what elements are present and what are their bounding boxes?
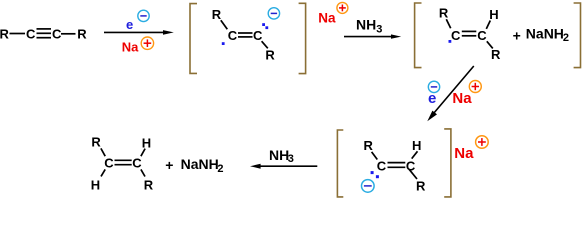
- wire bond C-H: [412, 151, 418, 158]
- svg-text:Na: Na: [454, 145, 474, 162]
- svg-text:NH: NH: [356, 17, 376, 33]
- svg-text:H: H: [142, 135, 151, 150]
- svg-text:Na: Na: [452, 90, 472, 107]
- triple bond: [37, 28, 52, 30]
- wire bond R-C: [221, 20, 228, 29]
- wire bond R-C: [10, 33, 26, 35]
- plus charge circle: [337, 2, 348, 13]
- svg-text:H: H: [91, 178, 100, 193]
- arrow 3 (left): [250, 164, 317, 169]
- minus charge circle: [362, 180, 375, 193]
- svg-text:H: H: [489, 7, 498, 22]
- bracket close 3: [444, 129, 451, 197]
- bracket open 2: [415, 3, 422, 68]
- svg-text:C: C: [477, 28, 487, 43]
- svg-text:C: C: [52, 26, 62, 41]
- radical anion structure: [212, 7, 276, 63]
- lone pair dots: [262, 23, 265, 26]
- svg-text:C: C: [26, 26, 36, 41]
- svg-text:+: +: [513, 27, 521, 43]
- wire bond R-C: [372, 152, 378, 160]
- double bond: [462, 30, 477, 32]
- lone pair dots: [371, 171, 374, 174]
- minus charge circle: [138, 10, 149, 21]
- plus charge circle: [141, 37, 153, 49]
- svg-text:Na: Na: [318, 10, 336, 25]
- arrow 2: [344, 34, 401, 38]
- wire bond C-H bottom: [101, 169, 105, 176]
- svg-text:R: R: [91, 134, 101, 149]
- radical electron dot: [222, 42, 225, 45]
- double bond: [115, 159, 132, 161]
- svg-text:C: C: [451, 28, 461, 43]
- wire bond C-R bottom: [141, 169, 145, 176]
- plus NaNH2 byproduct: [513, 25, 569, 44]
- trans-alkene product: [91, 134, 154, 192]
- svg-text:R: R: [77, 26, 87, 41]
- svg-text:e: e: [428, 90, 436, 107]
- vinyl anion structure: [364, 138, 427, 193]
- bracket open 1: [190, 4, 197, 74]
- wire bond R-C: [101, 148, 105, 156]
- diagonal arrow: [427, 66, 474, 121]
- svg-text:Na: Na: [122, 40, 139, 55]
- double bond: [388, 162, 406, 164]
- minus charge circle: [428, 81, 439, 92]
- bracket close 1: [299, 3, 306, 73]
- svg-text:R: R: [265, 48, 275, 63]
- wire bond C-R: [487, 41, 493, 48]
- bracket close 2: [574, 3, 581, 68]
- svg-text:R: R: [0, 26, 10, 41]
- bracket open 3: [337, 130, 343, 197]
- minus charge circle: [268, 8, 279, 19]
- radical electron dot: [449, 40, 452, 43]
- svg-text:C: C: [253, 28, 263, 43]
- svg-text:NH: NH: [269, 147, 289, 163]
- svg-text:C: C: [377, 159, 387, 174]
- svg-text:+: +: [165, 157, 173, 173]
- plus charge circle: [469, 81, 481, 93]
- svg-text:C: C: [104, 156, 114, 171]
- NH3 label: [356, 17, 382, 36]
- wire bond C-R: [409, 169, 417, 179]
- svg-text:H: H: [412, 138, 421, 153]
- svg-text:C: C: [228, 28, 238, 43]
- wire bond C-R: [61, 33, 76, 35]
- svg-text:3: 3: [376, 23, 382, 35]
- NH3 label: [269, 147, 294, 165]
- svg-text:NaNH: NaNH: [181, 156, 219, 172]
- plus NaNH2 byproduct: [165, 156, 223, 175]
- wire bond R-C: [446, 19, 450, 28]
- wire bond C-R: [262, 41, 268, 48]
- svg-text:R: R: [212, 7, 222, 22]
- svg-text:R: R: [144, 178, 154, 193]
- vinyl radical structure: [439, 5, 501, 62]
- svg-text:R: R: [439, 5, 449, 20]
- wire bond C-H top: [141, 149, 145, 157]
- svg-text:NaNH: NaNH: [526, 25, 564, 41]
- svg-text:R: R: [491, 47, 501, 62]
- svg-text:2: 2: [563, 32, 569, 44]
- svg-text:R: R: [416, 179, 426, 194]
- svg-text:3: 3: [288, 153, 294, 165]
- svg-text:R: R: [364, 138, 374, 153]
- svg-text:e: e: [126, 17, 133, 32]
- svg-text:C: C: [132, 156, 142, 171]
- wire bond C-H: [486, 21, 490, 29]
- svg-text:2: 2: [217, 163, 223, 175]
- double bond: [238, 32, 253, 34]
- arrow 1: [104, 30, 174, 35]
- plus charge circle: [476, 136, 489, 149]
- alkyne R-C≡C-R: [0, 26, 87, 41]
